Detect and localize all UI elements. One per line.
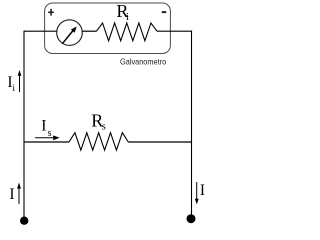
arrow I up bottom-left xyxy=(17,182,21,204)
svg-text:s: s xyxy=(48,128,52,139)
wire: left lead through box to galvanometer xyxy=(24,30,57,32)
galvanometer needle xyxy=(62,27,76,44)
label Ii xyxy=(7,74,15,94)
galvanometer box outline xyxy=(45,3,171,54)
svg-text:I: I xyxy=(200,182,205,199)
svg-text:Galvanometro: Galvanometro xyxy=(120,56,167,66)
label Ri xyxy=(116,1,129,23)
node terminal bottom-left xyxy=(20,217,28,225)
svg-text:i: i xyxy=(126,12,129,23)
svg-text:I: I xyxy=(9,186,14,203)
minus terminal label xyxy=(162,11,167,13)
plus terminal label xyxy=(48,9,54,16)
node terminal bottom-right xyxy=(187,214,196,223)
wire: middle branch right segment xyxy=(128,141,191,143)
label Rs xyxy=(91,110,106,132)
label Is xyxy=(41,118,51,139)
wire: galvanometer to resistor Ri xyxy=(82,30,96,32)
arrow I down bottom-right xyxy=(195,182,199,204)
wire: right vertical branch xyxy=(191,31,193,219)
galvanometer meter circle xyxy=(57,20,83,46)
wire: resistor Ri to right corner xyxy=(157,30,192,32)
arrow Ii current direction xyxy=(18,70,22,92)
arrow Is current direction xyxy=(35,135,60,140)
resistor Rs xyxy=(69,133,128,151)
wire: middle branch left segment to resistor Rs xyxy=(24,141,69,143)
svg-text:i: i xyxy=(12,84,15,94)
resistor Ri xyxy=(97,23,158,41)
wire: left vertical branch xyxy=(23,31,25,221)
svg-text:s: s xyxy=(102,122,106,133)
svg-text:I: I xyxy=(41,118,46,135)
